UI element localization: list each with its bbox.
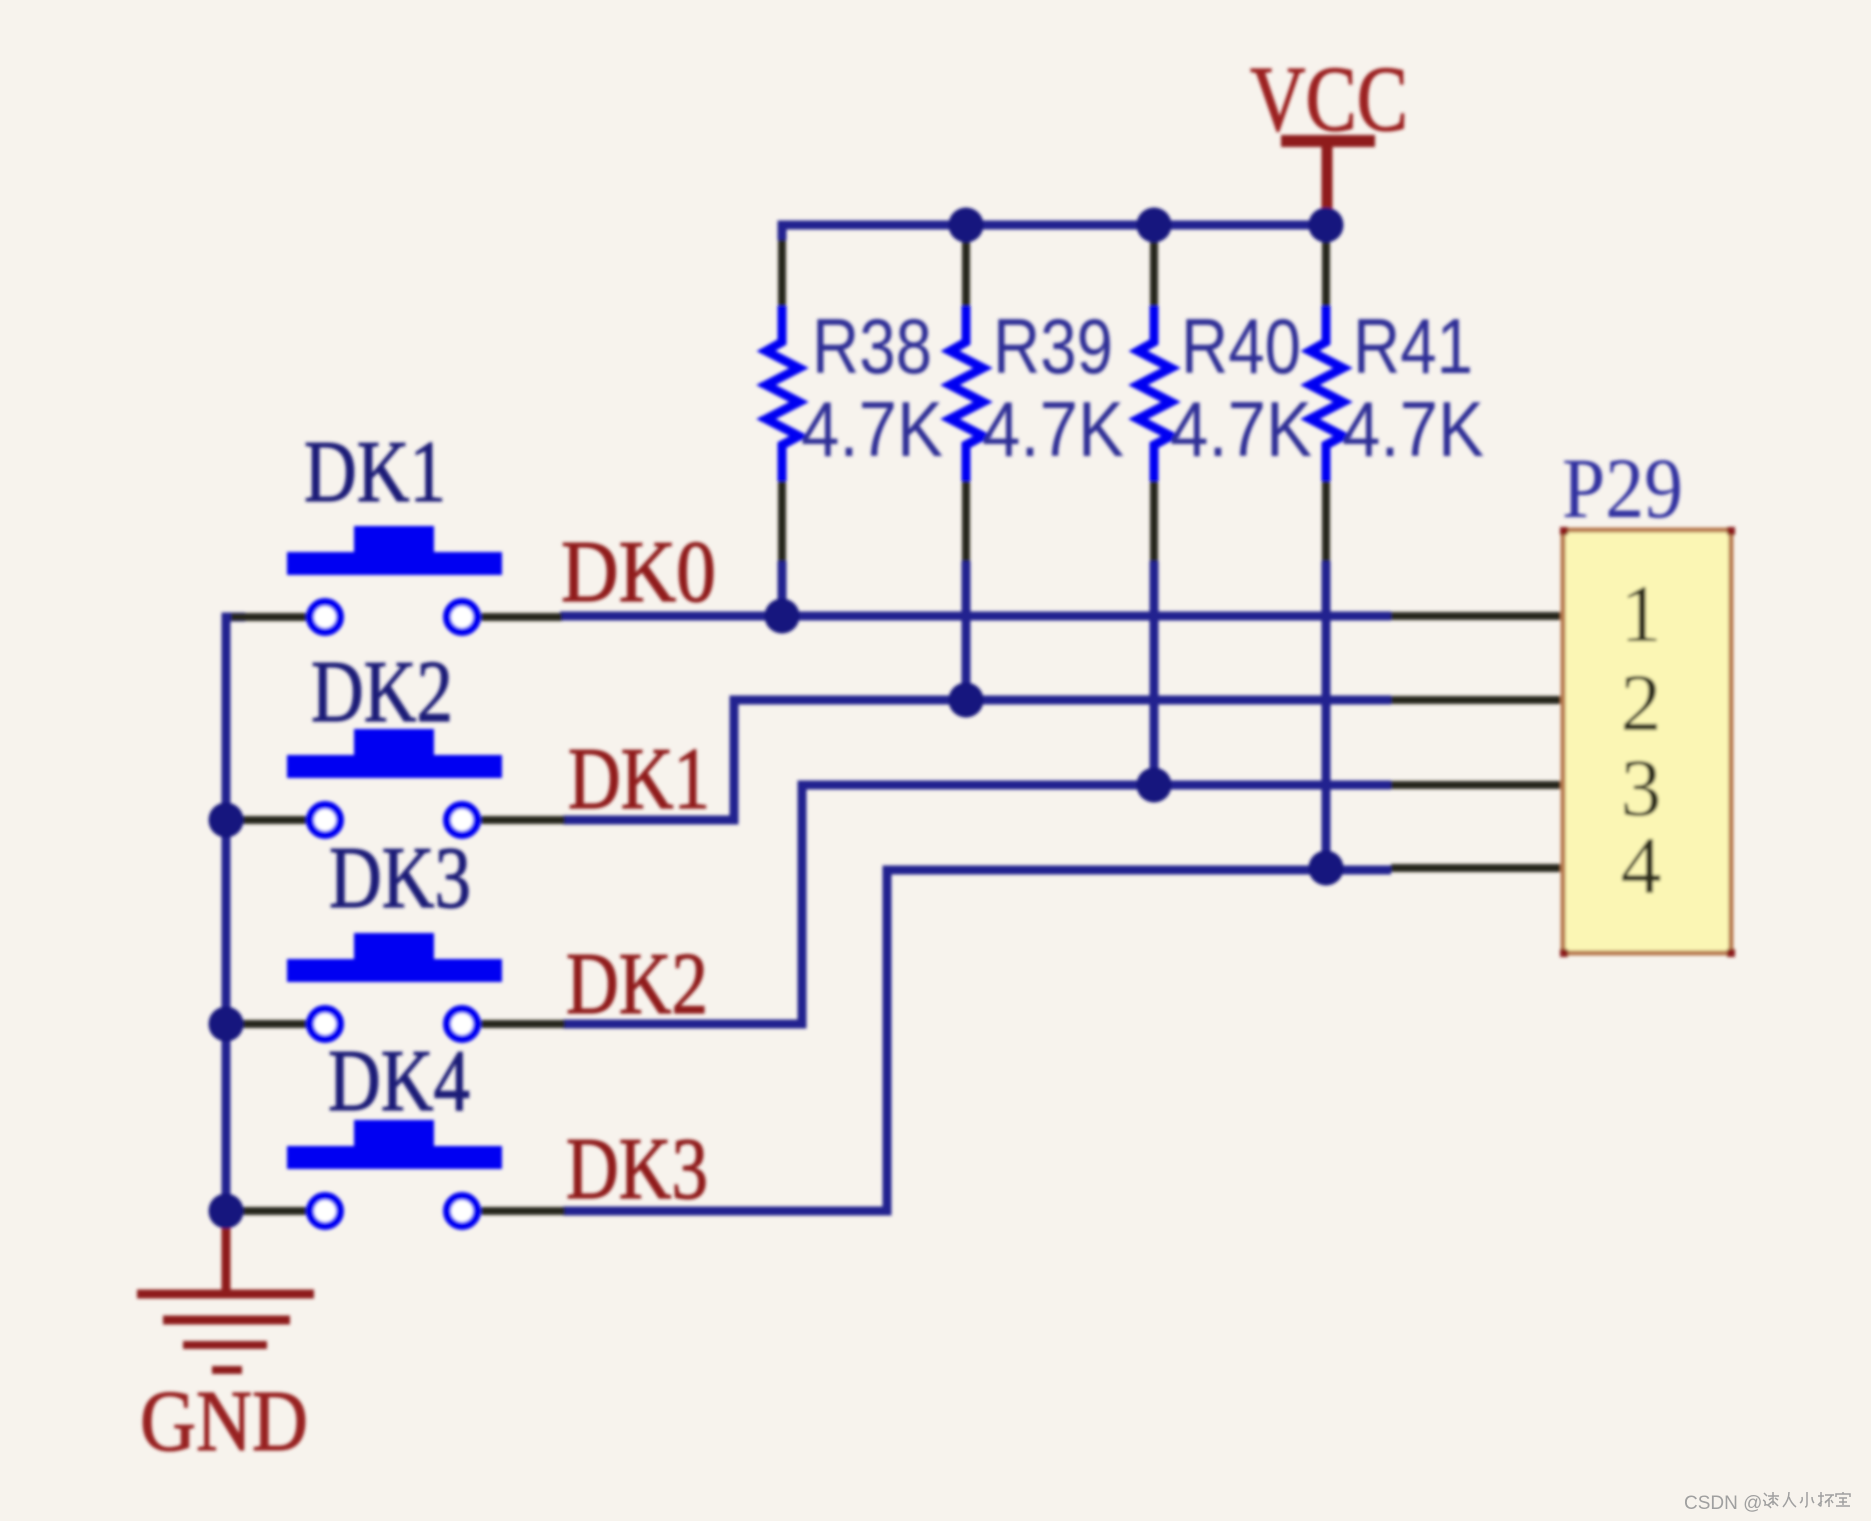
svg-text:DK0: DK0 — [561, 524, 716, 621]
svg-text:R40: R40 — [1181, 302, 1301, 390]
svg-text:DK1: DK1 — [304, 424, 446, 521]
svg-text:DK1: DK1 — [568, 731, 710, 828]
svg-text:4.7K: 4.7K — [982, 385, 1124, 473]
svg-text:R38: R38 — [812, 302, 932, 390]
svg-text:DK4: DK4 — [328, 1033, 470, 1130]
svg-text:4.7K: 4.7K — [801, 385, 943, 473]
svg-text:R41: R41 — [1353, 302, 1473, 390]
svg-text:DK3: DK3 — [566, 1121, 708, 1218]
svg-text:2: 2 — [1621, 657, 1662, 748]
svg-text:4.7K: 4.7K — [1170, 385, 1312, 473]
svg-text:CSDN @: CSDN @ — [1684, 1493, 1762, 1514]
svg-text:4.7K: 4.7K — [1342, 385, 1484, 473]
svg-text:4: 4 — [1621, 820, 1662, 911]
svg-text:DK2: DK2 — [311, 644, 453, 741]
svg-text:P29: P29 — [1562, 440, 1683, 536]
svg-text:R39: R39 — [993, 302, 1113, 390]
svg-text:1: 1 — [1621, 568, 1662, 659]
svg-text:DK3: DK3 — [329, 830, 471, 927]
svg-text:DK2: DK2 — [566, 936, 708, 1033]
svg-text:GND: GND — [140, 1372, 308, 1469]
svg-text:VCC: VCC — [1250, 48, 1408, 151]
